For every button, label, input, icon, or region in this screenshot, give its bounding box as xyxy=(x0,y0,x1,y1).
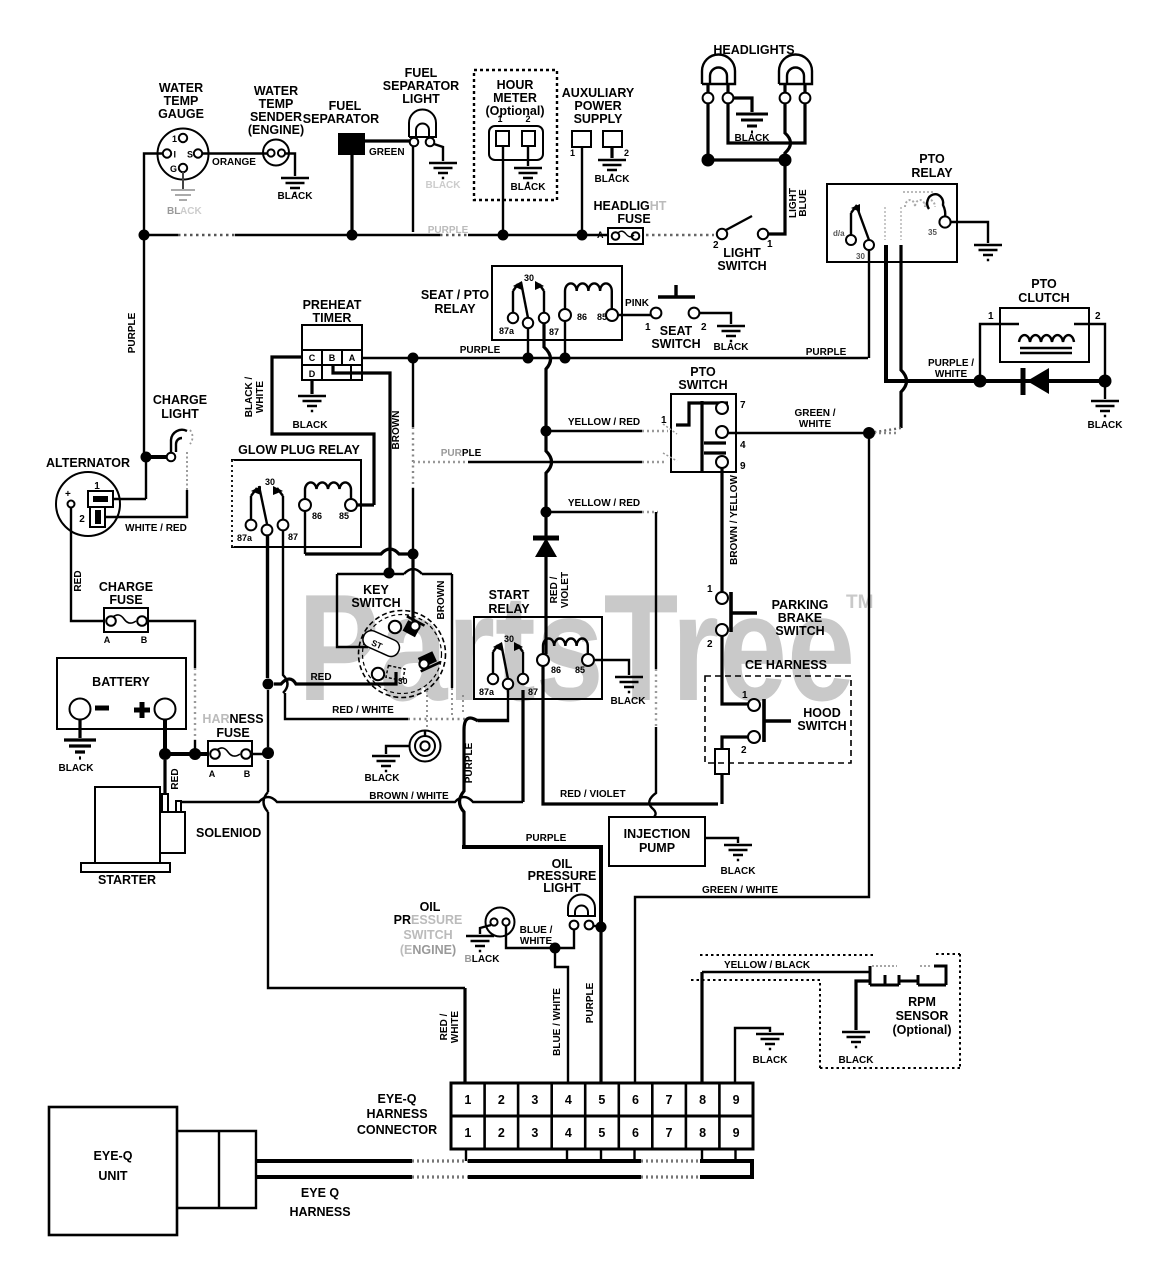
wire key i terminal brown xyxy=(411,558,414,621)
node junction aux power xyxy=(577,230,588,241)
svg-text:POWER: POWER xyxy=(574,99,621,113)
svg-text:30: 30 xyxy=(504,634,514,644)
wire purple down to pin5 xyxy=(585,925,601,1083)
node junction purple-seat30 xyxy=(523,353,534,364)
ground seat switch black xyxy=(714,326,750,353)
svg-text:+: + xyxy=(65,489,71,500)
svg-text:SEAT: SEAT xyxy=(660,324,693,338)
svg-text:2: 2 xyxy=(707,639,713,650)
preheat timer xyxy=(302,298,362,380)
svg-text:SOLENIOD: SOLENIOD xyxy=(196,826,261,840)
wire hood 2 to fuse element xyxy=(722,737,748,749)
wire gauge I to bus xyxy=(144,154,163,231)
svg-text:HARNESS: HARNESS xyxy=(289,1205,350,1219)
svg-text:TEMP: TEMP xyxy=(164,94,199,108)
svg-text:BLACK: BLACK xyxy=(511,182,547,193)
svg-text:UNIT: UNIT xyxy=(98,1169,128,1183)
ground headlights black xyxy=(735,114,771,144)
wire x268 hop over brown/white xyxy=(264,792,269,812)
svg-text:BLACK: BLACK xyxy=(426,180,462,191)
svg-text:PURPLE: PURPLE xyxy=(585,982,596,1023)
wire charge fuse B down xyxy=(147,621,195,750)
svg-text:PURPLE: PURPLE xyxy=(127,312,138,353)
svg-text:7: 7 xyxy=(740,400,746,411)
svg-text:FUEL: FUEL xyxy=(329,99,362,113)
svg-text:GREEN / WHITE: GREEN / WHITE xyxy=(702,885,778,896)
svg-text:YELLOW / RED: YELLOW / RED xyxy=(568,498,640,509)
svg-text:YELLOW / RED: YELLOW / RED xyxy=(568,417,640,428)
label purple/white xyxy=(928,358,974,380)
wire battery minus to ground xyxy=(78,719,81,738)
fuse harness fuse xyxy=(202,712,263,779)
svg-text:BLACK: BLACK xyxy=(839,1055,875,1066)
svg-text:1: 1 xyxy=(497,114,502,124)
svg-text:PTO: PTO xyxy=(919,152,945,166)
svg-text:SWITCH: SWITCH xyxy=(651,337,700,351)
svg-text:EYE Q: EYE Q xyxy=(301,1186,339,1200)
ground key connector black xyxy=(365,756,401,784)
hour meter (dashed box) xyxy=(474,70,557,200)
wire start relay mid to purple riser xyxy=(478,689,508,721)
svg-text:ALTERNATOR: ALTERNATOR xyxy=(46,456,130,470)
wire red/white down to pin1 xyxy=(463,988,466,1083)
svg-text:2: 2 xyxy=(741,745,747,756)
ground battery black xyxy=(59,740,97,774)
svg-text:WATER: WATER xyxy=(254,84,298,98)
wire fuel sep light left to bus xyxy=(412,146,414,232)
wire start relay 86 down red/violet xyxy=(543,666,718,804)
wire red/white dotted to start relay xyxy=(285,693,508,720)
svg-text:CE HARNESS: CE HARNESS xyxy=(745,658,827,672)
svg-text:6: 6 xyxy=(632,1093,639,1107)
svg-text:87: 87 xyxy=(549,327,559,337)
wire harness bus B xyxy=(256,1175,700,1179)
svg-text:SEPARATOR: SEPARATOR xyxy=(303,112,379,126)
svg-text:S: S xyxy=(187,150,193,160)
ground preheat black xyxy=(293,396,329,431)
wire headlight right-left down with hop xyxy=(785,103,791,160)
svg-text:2: 2 xyxy=(1095,311,1101,322)
wire alternator pin2 white/red xyxy=(105,452,187,534)
switch hood switch xyxy=(741,690,847,756)
svg-text:PURPLE: PURPLE xyxy=(428,225,469,236)
svg-text:LIGHT: LIGHT xyxy=(723,246,761,260)
diode D2 red/violet xyxy=(533,538,559,557)
wire brown/yellow pto9 to parking brake xyxy=(722,468,740,592)
svg-text:SWITCH: SWITCH xyxy=(403,928,452,942)
svg-text:85: 85 xyxy=(339,511,349,521)
svg-text:OIL: OIL xyxy=(420,900,441,914)
svg-text:86: 86 xyxy=(551,665,561,675)
svg-text:GREEN /: GREEN / xyxy=(794,408,835,419)
battery B1 xyxy=(57,658,186,729)
component CE inline fuse xyxy=(715,749,729,774)
ground start relay black xyxy=(611,677,647,707)
svg-text:BROWN: BROWN xyxy=(391,411,402,450)
wire fuel separator to bus xyxy=(350,155,353,232)
wire glow 86 down to red junction xyxy=(304,511,306,554)
svg-text:START: START xyxy=(489,588,530,602)
label light blue xyxy=(788,188,809,218)
svg-text:G: G xyxy=(170,164,177,174)
ground sender black xyxy=(278,178,314,202)
fuel separator F1 xyxy=(303,99,405,158)
svg-text:30: 30 xyxy=(265,477,275,487)
label yellow/red upper (pto switch input) xyxy=(546,415,668,431)
wire glow 87 down xyxy=(283,530,288,693)
svg-text:7: 7 xyxy=(666,1093,673,1107)
eye-q unit box xyxy=(49,1107,177,1235)
switch seat switch xyxy=(645,285,707,351)
svg-text:30: 30 xyxy=(398,676,408,686)
svg-text:B: B xyxy=(244,769,251,779)
node junction charge light xyxy=(141,452,152,463)
wire charge light thick stub xyxy=(146,455,167,459)
svg-text:4: 4 xyxy=(740,440,746,451)
svg-text:FUSE: FUSE xyxy=(617,212,650,226)
svg-text:B: B xyxy=(329,353,336,363)
wire PTO relay third pin with hop xyxy=(901,245,907,428)
wire headlight left-right to ground xyxy=(733,98,752,112)
svg-text:SENSOR: SENSOR xyxy=(896,1009,949,1023)
wire orange gauge-to-sender xyxy=(202,154,267,169)
svg-text:PURPLE: PURPLE xyxy=(441,448,482,459)
wire connector to ground xyxy=(386,746,410,754)
svg-text:HOUR: HOUR xyxy=(497,78,534,92)
svg-text:LIGHT: LIGHT xyxy=(402,92,440,106)
label eye q harness xyxy=(289,1186,350,1219)
clutch PTO clutch xyxy=(988,277,1101,362)
svg-text:RED: RED xyxy=(310,672,331,683)
wire aux2 to ground xyxy=(610,147,613,158)
wire harness fuse B to x268 xyxy=(251,753,268,755)
svg-text:HARNESS: HARNESS xyxy=(202,712,263,726)
relay seat/PTO relay xyxy=(421,266,622,340)
svg-text:3: 3 xyxy=(531,1093,538,1107)
key switch KS1 xyxy=(337,569,452,698)
svg-text:RELAY: RELAY xyxy=(911,166,953,180)
svg-text:1: 1 xyxy=(172,134,177,144)
ground rpm black xyxy=(839,1032,875,1066)
wire x546 diode to start relay coil xyxy=(544,516,547,654)
charge light label xyxy=(153,393,207,421)
wire aux1 to bus xyxy=(581,147,583,232)
svg-text:EYE-Q: EYE-Q xyxy=(378,1092,417,1106)
svg-text:A: A xyxy=(209,769,216,779)
svg-text:BATTERY: BATTERY xyxy=(92,675,150,689)
svg-text:D: D xyxy=(309,369,316,379)
wire fuse to light switch (dotted) xyxy=(646,234,714,236)
oil pressure switch (faded) xyxy=(394,900,515,957)
svg-text:I: I xyxy=(174,150,177,160)
svg-text:BLUE /: BLUE / xyxy=(520,925,553,936)
svg-text:86: 86 xyxy=(312,511,322,521)
ground PTO clutch black xyxy=(1088,401,1124,431)
wire seat switch 2 to ground xyxy=(699,313,731,324)
wire glow mid down xyxy=(266,535,268,678)
svg-text:VIOLET: VIOLET xyxy=(560,572,571,608)
rpm sensor element xyxy=(870,966,946,985)
relay start relay xyxy=(474,588,602,699)
svg-text:87a: 87a xyxy=(499,326,515,336)
wire CE fuse down to red/violet xyxy=(720,774,723,804)
sender water temp sender xyxy=(248,84,304,166)
label red/violet vertical xyxy=(549,572,571,608)
wire dotted jog to green/white junction xyxy=(869,428,901,433)
svg-text:FUSE: FUSE xyxy=(109,593,142,607)
wire parking brake 2 down to hood 1 xyxy=(722,636,748,704)
svg-text:8: 8 xyxy=(699,1093,706,1107)
glow plug relay xyxy=(232,443,361,547)
solenoid xyxy=(160,794,261,853)
svg-text:SEAT / PTO: SEAT / PTO xyxy=(421,288,490,302)
node junction yellow/red upper xyxy=(541,426,552,437)
wire alternator pin1 to purple riser xyxy=(113,498,146,500)
wire PTO relay pin30 to purple bus xyxy=(868,250,870,358)
svg-text:RED /: RED / xyxy=(549,576,560,603)
svg-text:9: 9 xyxy=(733,1093,740,1107)
svg-text:1: 1 xyxy=(645,322,651,333)
svg-text:WHITE: WHITE xyxy=(450,1011,461,1044)
node junction red line xyxy=(263,679,274,690)
svg-text:d/a: d/a xyxy=(833,229,845,238)
CE harness dashed box xyxy=(705,658,851,763)
svg-text:BLACK: BLACK xyxy=(721,866,757,877)
svg-text:FUEL: FUEL xyxy=(405,66,438,80)
node junction headlight left xyxy=(702,154,715,167)
aux power supply xyxy=(562,86,635,158)
svg-text:87: 87 xyxy=(528,687,538,697)
svg-text:AUXULIARY: AUXULIARY xyxy=(562,86,635,100)
svg-text:PINK: PINK xyxy=(625,298,650,309)
svg-text:87: 87 xyxy=(288,532,298,542)
svg-text:B: B xyxy=(141,635,148,645)
svg-text:(ENGINE): (ENGINE) xyxy=(400,943,456,957)
wire preheat D to ground xyxy=(310,380,313,394)
svg-text:WATER: WATER xyxy=(159,81,203,95)
svg-text:TIMER: TIMER xyxy=(313,311,352,325)
svg-text:PURPLE: PURPLE xyxy=(806,347,847,358)
node junction headlight right xyxy=(779,154,792,167)
wire PTO clutch pin1 xyxy=(980,324,1019,377)
svg-text:PRESSURE: PRESSURE xyxy=(394,913,463,927)
fuse headlight fuse xyxy=(594,199,667,244)
lamp fuel separator light xyxy=(383,66,459,146)
node junction x413-y554 xyxy=(408,549,419,560)
starter M1 xyxy=(81,787,170,887)
wire main top bus xyxy=(144,225,609,236)
svg-text:86: 86 xyxy=(577,312,587,322)
switch parking brake xyxy=(707,584,828,650)
wire hour meter pin1 to bus xyxy=(502,146,504,232)
switch light switch xyxy=(713,216,773,273)
relay PTO relay xyxy=(827,152,957,262)
svg-text:BLACK: BLACK xyxy=(278,191,314,202)
node junction bus-left xyxy=(139,230,150,241)
svg-text:5: 5 xyxy=(598,1126,605,1140)
svg-text:YELLOW / BLACK: YELLOW / BLACK xyxy=(724,960,811,971)
svg-text:ORANGE: ORANGE xyxy=(212,157,256,168)
svg-text:C: C xyxy=(309,353,316,363)
node junction blue/white xyxy=(550,943,561,954)
svg-text:CHARGE: CHARGE xyxy=(99,580,153,594)
svg-text:BLUE / WHITE: BLUE / WHITE xyxy=(552,988,563,1056)
wire sender to ground xyxy=(285,154,295,177)
wire brown/white solenoid to start relay 87 xyxy=(181,690,523,802)
svg-text:PURPLE: PURPLE xyxy=(460,345,501,356)
svg-text:BROWN / YELLOW: BROWN / YELLOW xyxy=(729,475,740,565)
svg-text:INJECTION: INJECTION xyxy=(624,827,691,841)
wire fuel separator to lamp xyxy=(365,139,410,142)
wire key dotted terminal drops xyxy=(427,688,463,731)
svg-text:A: A xyxy=(597,230,604,240)
wire clutch2 to ground xyxy=(1104,387,1106,399)
ground hour meter black xyxy=(511,168,547,193)
wire x413 brown fuel-light to key switch xyxy=(412,358,414,621)
svg-text:CLUTCH: CLUTCH xyxy=(1018,291,1069,305)
wire glow 85 stub xyxy=(357,503,374,506)
svg-text:BLACK: BLACK xyxy=(595,174,631,185)
svg-text:30: 30 xyxy=(856,252,865,261)
node junction purple-x413 xyxy=(408,353,419,364)
node junction charge-fuse drop xyxy=(189,748,201,760)
wire lamp right to purple xyxy=(593,925,601,927)
svg-text:4: 4 xyxy=(565,1093,572,1107)
wire oil switch to lamp blue/white xyxy=(506,926,574,948)
svg-text:STARTER: STARTER xyxy=(98,873,156,887)
node junction hour meter xyxy=(498,230,509,241)
wire PTO relay 35 to ground xyxy=(951,222,988,243)
svg-text:PURPLE /: PURPLE / xyxy=(928,358,974,369)
svg-text:CONNECTOR: CONNECTOR xyxy=(357,1123,437,1137)
wire purple/white thick bar with diode xyxy=(978,379,1105,383)
fuse charge fuse xyxy=(99,580,153,645)
svg-text:WHITE: WHITE xyxy=(799,419,832,430)
svg-text:PTO: PTO xyxy=(690,365,716,379)
svg-text:RED: RED xyxy=(170,768,181,789)
lamp headlight right xyxy=(779,55,812,104)
svg-text:A: A xyxy=(104,635,111,645)
wire light switch pin1 riser xyxy=(768,163,785,234)
svg-text:GREEN: GREEN xyxy=(369,147,405,158)
wire y554 to key switch junction xyxy=(305,549,413,554)
svg-text:BROWN: BROWN xyxy=(436,581,447,620)
svg-text:HOOD: HOOD xyxy=(803,706,841,720)
node junction yellow/red xyxy=(541,507,552,518)
svg-text:ACK: ACK xyxy=(180,206,202,217)
svg-text:LIGHT: LIGHT xyxy=(161,407,199,421)
wire oil switch to ground xyxy=(480,925,491,934)
svg-text:BLACK: BLACK xyxy=(293,420,329,431)
svg-text:SWITCH: SWITCH xyxy=(351,596,400,610)
wire seat relay mid to purple bus xyxy=(527,328,529,355)
svg-text:1: 1 xyxy=(464,1126,471,1140)
diode D1 xyxy=(1023,368,1049,395)
svg-text:BLUE: BLUE xyxy=(798,189,809,217)
svg-text:30: 30 xyxy=(524,273,534,283)
wire green/white down long xyxy=(635,433,869,1083)
rpm sensor dashed box xyxy=(689,954,960,1068)
wire hour meter pin2 to ground xyxy=(527,146,529,166)
wire x268 glowmid-red-harness-purple long vertical xyxy=(268,535,465,988)
alternator A1 xyxy=(46,456,130,536)
svg-text:RELAY: RELAY xyxy=(488,602,530,616)
svg-text:RED / WHITE: RED / WHITE xyxy=(332,705,394,716)
wire purple dotted to pto9 xyxy=(413,448,666,462)
svg-text:2: 2 xyxy=(713,240,719,251)
node junction clutch 1 xyxy=(974,375,987,388)
svg-text:PTO: PTO xyxy=(1031,277,1057,291)
svg-text:9: 9 xyxy=(733,1126,740,1140)
wire injection pump to ground xyxy=(705,838,738,843)
label blue/white near switch xyxy=(520,925,553,947)
svg-text:RELAY: RELAY xyxy=(434,302,476,316)
connector EYE-Q harness connector xyxy=(357,1083,753,1149)
svg-text:2: 2 xyxy=(624,148,629,158)
svg-text:SENDER: SENDER xyxy=(250,110,302,124)
svg-text:85: 85 xyxy=(597,312,607,322)
wire purple riser x464 xyxy=(460,718,479,845)
svg-text:BLACK: BLACK xyxy=(1088,420,1124,431)
svg-text:SWITCH: SWITCH xyxy=(717,259,766,273)
svg-text:RED /: RED / xyxy=(439,1013,450,1040)
svg-text:BLACK /: BLACK / xyxy=(244,377,255,418)
svg-text:85: 85 xyxy=(575,665,585,675)
svg-text:1: 1 xyxy=(464,1093,471,1107)
wire blue/white down to pin4 xyxy=(552,948,568,1083)
svg-text:5: 5 xyxy=(598,1093,605,1107)
svg-text:SWITCH: SWITCH xyxy=(678,378,727,392)
lamp oil pressure light xyxy=(528,857,597,929)
svg-text:PURPLE: PURPLE xyxy=(464,742,475,783)
node junction purple-lamp xyxy=(596,922,607,933)
wire PTO clutch pin2 xyxy=(1074,324,1105,377)
svg-text:PUMP: PUMP xyxy=(639,841,675,855)
svg-text:SWITCH: SWITCH xyxy=(797,719,846,733)
wire start relay 85 to ground xyxy=(594,660,629,675)
wire seat relay 86 to purple bus xyxy=(564,321,566,355)
connector round below key xyxy=(410,731,441,762)
wire headlight left-right to right-right xyxy=(728,103,805,143)
svg-text:1: 1 xyxy=(988,311,994,322)
svg-text:2: 2 xyxy=(498,1093,505,1107)
svg-text:RPM: RPM xyxy=(908,995,936,1009)
svg-text:BRAKE: BRAKE xyxy=(778,611,822,625)
svg-text:BLACK: BLACK xyxy=(714,342,750,353)
wire yellow/red to pto switch and down xyxy=(546,498,658,512)
svg-text:SEPARATOR: SEPARATOR xyxy=(383,79,459,93)
svg-text:A: A xyxy=(349,353,356,363)
node junction fuel separator xyxy=(347,230,358,241)
wire preheat C loop to glow coil xyxy=(272,357,374,505)
svg-text:(Optional): (Optional) xyxy=(485,104,544,118)
ground aux power black xyxy=(595,160,631,185)
svg-text:BL: BL xyxy=(167,206,180,217)
wire harness bus A xyxy=(256,1161,752,1177)
node junction purple-seat86 xyxy=(560,353,571,364)
svg-text:BLACK: BLACK xyxy=(753,1055,789,1066)
svg-text:BLACK: BLACK xyxy=(365,773,401,784)
wire pin9 to ground xyxy=(735,1028,770,1083)
eye-q unit connector box xyxy=(177,1131,256,1208)
wire PTO relay to purple/white (thick) xyxy=(886,245,978,381)
ground injection pump black xyxy=(721,845,757,877)
wire rpm sensor to ground xyxy=(856,981,870,1030)
wire connector bottom taps xyxy=(466,1149,736,1161)
wire yellow/red x656 down to injection pump xyxy=(649,512,656,817)
node junction harness fuse B xyxy=(262,747,274,759)
watermark PartsTree xyxy=(298,563,873,733)
